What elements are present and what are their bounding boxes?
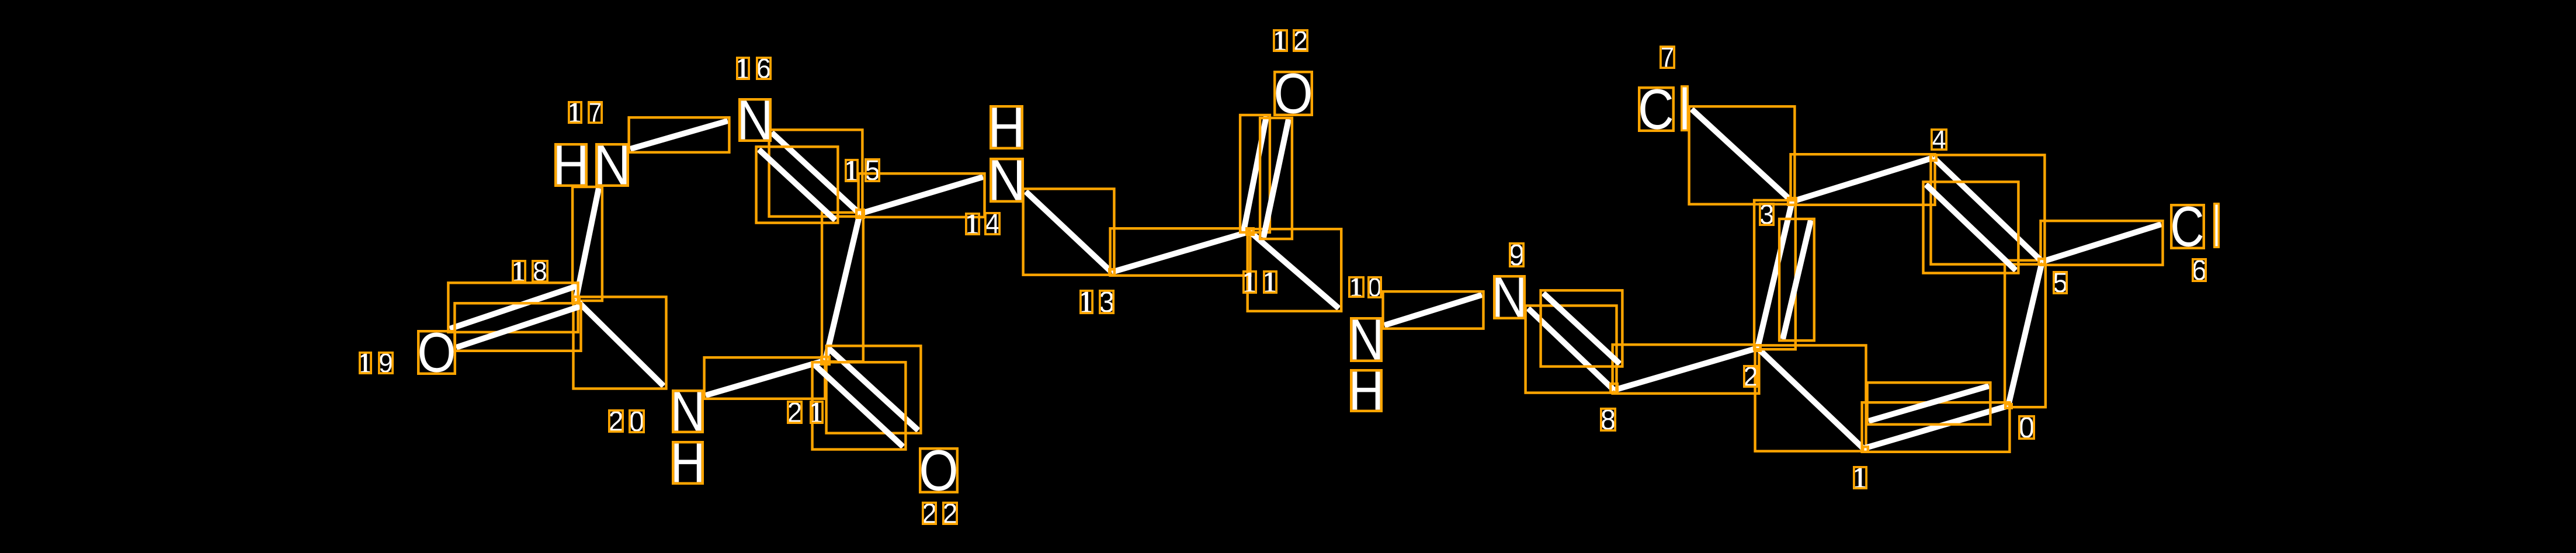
bond 5-0	[2005, 260, 2046, 407]
atom index label 20	[609, 411, 644, 432]
bond 8-2	[1613, 345, 1759, 394]
atom index label 19	[360, 353, 393, 373]
atom C21 box	[821, 357, 829, 364]
atom index label 21	[788, 402, 822, 423]
atom index label 4	[1932, 130, 1946, 149]
atom index label 8	[1601, 409, 1615, 430]
bond 3-7	[1689, 106, 1795, 204]
double bond 16=15	[756, 130, 863, 222]
atom Cl7 glyph l	[1682, 86, 1688, 131]
atom index label 3	[1760, 204, 1773, 225]
atom C11 box	[1247, 228, 1254, 235]
bond 3-4	[1791, 154, 1935, 205]
bond 15-21	[822, 213, 863, 361]
atom index label 16	[737, 58, 770, 79]
atom index label 14	[966, 213, 999, 234]
atom N17 glyph N	[596, 144, 628, 186]
atom index label 13	[1081, 291, 1113, 313]
atom C0 box	[2005, 404, 2012, 408]
atom index label 22	[923, 503, 957, 524]
atom index label 2	[1744, 366, 1757, 387]
atom C18 box	[572, 297, 579, 302]
atom C2 box	[1755, 345, 1761, 351]
bond 17-18	[572, 187, 602, 301]
double bond 4=5	[1924, 155, 2045, 273]
bond 15-14	[859, 173, 985, 217]
double bond 0=1	[1862, 382, 2010, 452]
bond 20-21	[704, 357, 825, 399]
atom index label 12	[1274, 30, 1307, 51]
atom index label 11	[1244, 272, 1276, 293]
double bond 9=8	[1526, 290, 1623, 392]
atom index label 7	[1661, 47, 1674, 68]
bond 10-9	[1383, 291, 1484, 329]
atom index label 0	[2019, 416, 2034, 439]
atom N14 glyph N	[991, 159, 1023, 201]
double bond 11=12	[1240, 115, 1292, 239]
atom Cl6 glyph C	[2171, 205, 2204, 248]
atom index label 5	[2054, 272, 2067, 293]
atom N10 glyph N	[1351, 318, 1381, 361]
atom Cl7 glyph C	[1639, 88, 1674, 131]
atom C13 box	[1109, 269, 1115, 275]
atom index label 17	[569, 102, 602, 123]
double bond 21=22	[813, 346, 921, 449]
atom C4 box	[1931, 155, 1936, 161]
bond 11-10	[1248, 229, 1342, 311]
atom C1 box	[1863, 447, 1868, 452]
bond 17-16	[629, 117, 730, 152]
double bond 18=19	[448, 283, 581, 351]
atom C3 box	[1788, 198, 1796, 205]
atom index label 1	[1854, 467, 1866, 488]
atom O22 glyph O	[920, 448, 957, 492]
atom N10 glyph H	[1351, 370, 1381, 411]
atom N16 glyph N	[740, 99, 770, 141]
double bond 2=3	[1754, 200, 1814, 349]
bond 2-1	[1755, 345, 1866, 451]
atom Cl6 glyph l	[2214, 204, 2219, 248]
atom index label 18	[513, 261, 547, 281]
bond 5-6	[2041, 221, 2163, 265]
atom N9 glyph N	[1494, 276, 1525, 318]
atom index label 6	[2193, 259, 2206, 281]
bond 18-20	[574, 297, 666, 388]
bond 14-13	[1023, 189, 1115, 274]
atom index label 15	[846, 159, 879, 181]
atom C5 box	[2039, 259, 2045, 265]
atom N17 glyph H	[556, 144, 586, 186]
atom index label 9	[1510, 244, 1523, 266]
atom N14 glyph H	[991, 106, 1022, 148]
atom index label 10	[1349, 277, 1381, 297]
atom C15 box	[856, 210, 864, 218]
atom N20 glyph N	[673, 391, 703, 432]
atom O19 glyph O	[418, 331, 455, 374]
atom N20 glyph H	[673, 442, 703, 484]
atom C8 box	[1610, 384, 1617, 392]
bond 13-11	[1110, 228, 1251, 276]
atom O12 glyph O	[1275, 72, 1312, 115]
